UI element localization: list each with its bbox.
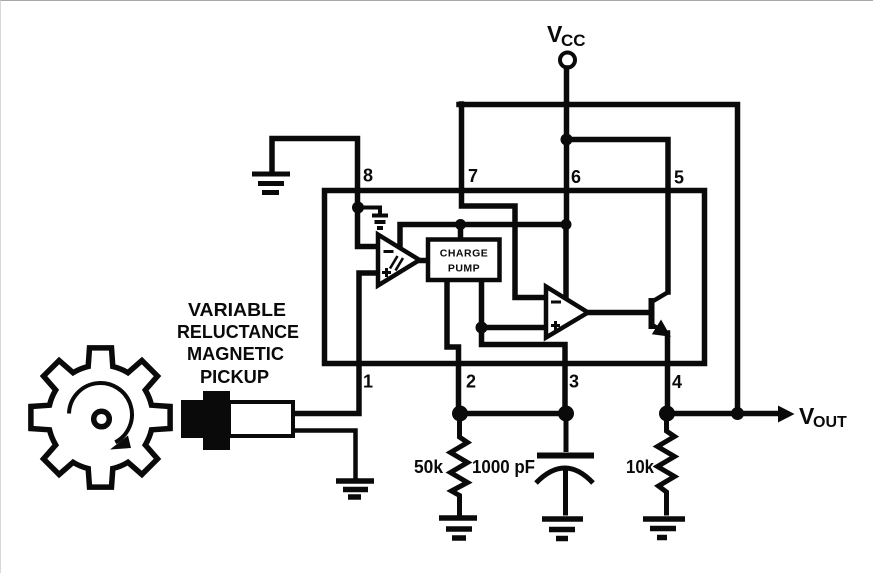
wire to op-amp 2 non-inverting input (482, 325, 546, 331)
op-amp U2 output comparator (546, 287, 588, 338)
svg-text:10k: 10k (626, 457, 655, 477)
pickup magnet block (181, 400, 207, 438)
VOUT arrowhead (778, 406, 795, 423)
node VCC terminal (560, 53, 575, 68)
svg-text:OUT: OUT (813, 414, 847, 431)
transistor Q1 (652, 293, 670, 336)
wire VCC stem (564, 68, 570, 104)
charge pump block (428, 240, 500, 281)
resistor R2 10k (658, 413, 675, 516)
node pin 2 junction (452, 406, 468, 422)
wire op-amp 2 output to transistor base (587, 310, 649, 316)
wire pickup lower lead to ground (293, 431, 356, 479)
svg-text:RELUCTANCE: RELUCTANCE (177, 322, 299, 342)
op-amp U1 input comparator (378, 235, 420, 286)
svg-text:MAGNETIC: MAGNETIC (187, 344, 284, 364)
junction dots (352, 134, 744, 422)
svg-text:1: 1 (363, 372, 373, 392)
svg-text:5: 5 (674, 168, 684, 188)
ground (top left) (252, 174, 290, 193)
ground (below 50k) (439, 518, 477, 538)
svg-text:4: 4 (672, 372, 682, 392)
svg-text:CC: CC (561, 31, 586, 50)
node charge pump top junction (455, 219, 466, 230)
wire internal ground stub (358, 208, 381, 213)
IC box (325, 191, 705, 364)
node pin 6 feedback junction (561, 219, 572, 230)
wire pin 7 path to op-amp 2 inverting input (462, 104, 546, 298)
svg-text:1000 pF: 1000 pF (472, 457, 535, 477)
node pin 3 junction (558, 406, 574, 422)
wire charge pump top stem (458, 224, 464, 239)
svg-text:6: 6 (571, 167, 581, 187)
capacitor C1 1000 pF (536, 413, 594, 516)
ground (below 10k) (643, 519, 685, 538)
gear rotation arrow (69, 383, 132, 442)
wire VOUT output (668, 411, 780, 417)
svg-text:PUMP: PUMP (448, 263, 480, 275)
node VOUT junction (731, 407, 744, 420)
wire pin 1 to op-amp 1 non-inverting input and pickup (293, 273, 378, 414)
svg-text:3: 3 (569, 372, 579, 392)
pickup coil body (229, 402, 293, 436)
wire branch to pin 5 / collector (567, 140, 669, 293)
wire pin 8 ground branch (272, 139, 377, 247)
svg-text:8: 8 (363, 166, 373, 186)
wire charge pump output to pin 2 (447, 280, 459, 413)
wire joining pins 2 and 3 (460, 411, 566, 417)
svg-text:CHARGE: CHARGE (440, 248, 489, 260)
wire op-amp 1 output to charge pump (418, 258, 429, 264)
wire emitter to pin 4 (665, 333, 671, 413)
node op-amp 2 plus junction (476, 322, 488, 334)
svg-text:50k: 50k (414, 457, 444, 477)
resistor R1 50k (451, 413, 468, 516)
svg-text:7: 7 (468, 166, 478, 186)
svg-text:PICKUP: PICKUP (200, 367, 269, 387)
node VCC rail junction (561, 134, 573, 146)
node pin 4 junction (659, 406, 675, 422)
svg-text:2: 2 (466, 372, 476, 392)
wire charge pump output to pin 3 (482, 280, 566, 413)
gear hub (94, 411, 110, 427)
node pin 8 junction (352, 202, 364, 214)
wire VCC vertical into pin 6 (564, 104, 570, 225)
wire pin 6 to op-amp 2 (563, 225, 569, 297)
gear wheel (31, 348, 170, 487)
ground (below 1000pF) (542, 519, 583, 539)
ground (internal at pin 8) (372, 216, 388, 229)
wire feedback line to op-amp 1 (400, 225, 566, 251)
wire top supply rail and right outer drop to VOUT (459, 105, 738, 414)
ground (pickup) (336, 481, 374, 497)
svg-text:VARIABLE: VARIABLE (188, 300, 286, 320)
